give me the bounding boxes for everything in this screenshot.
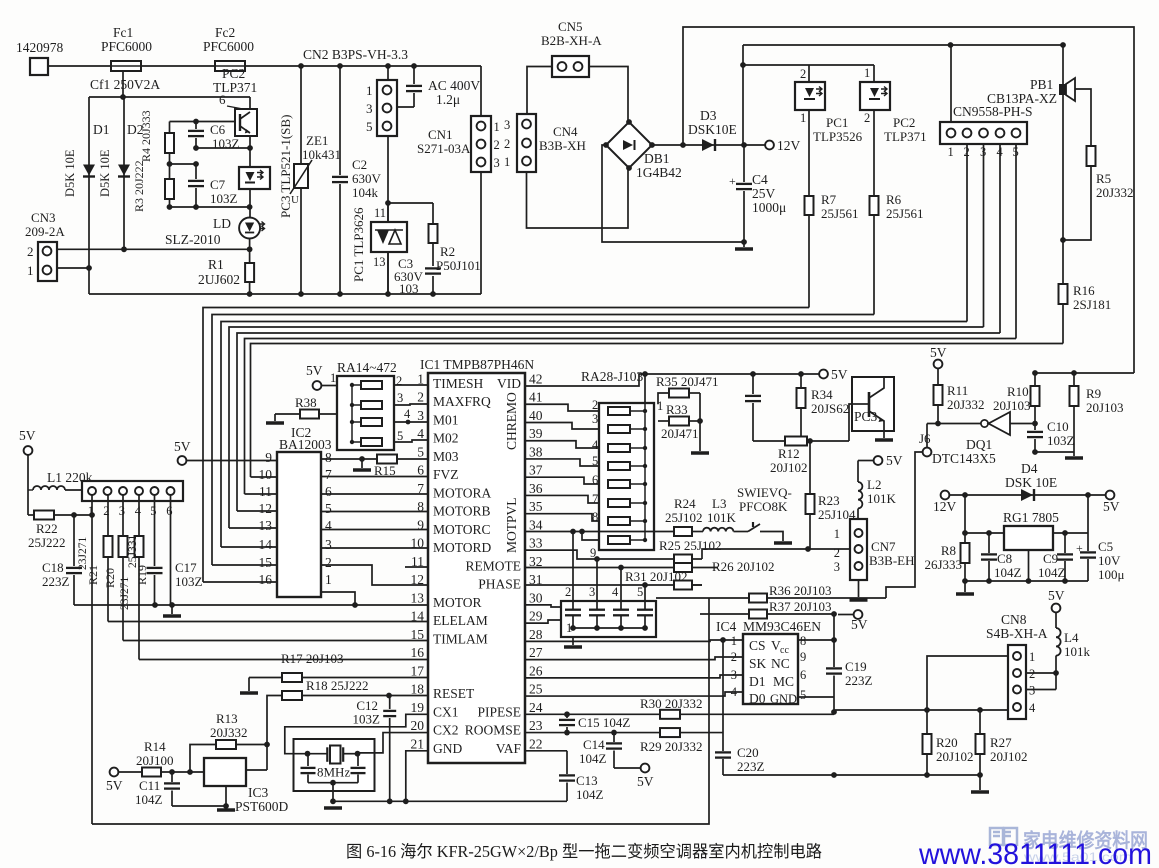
svg-text:C18: C18 xyxy=(42,560,64,575)
wire CN9558 pin1 up xyxy=(950,45,952,122)
wire display pin5 down xyxy=(154,495,156,566)
svg-text:23J271: 23J271 xyxy=(77,537,89,570)
svg-text:MOTORD: MOTORD xyxy=(433,540,492,555)
svg-text:3: 3 xyxy=(504,118,510,132)
terminal 5V R11 xyxy=(934,360,943,369)
svg-text:PFC6000: PFC6000 xyxy=(203,39,254,54)
wire transistor base xyxy=(170,121,236,123)
svg-text:R8: R8 xyxy=(941,543,956,558)
wire bundle line 1 xyxy=(203,308,809,583)
wire IC1 pin21 GND xyxy=(406,751,428,802)
svg-text:VID: VID xyxy=(497,376,521,391)
svg-text:R37 20J103: R37 20J103 xyxy=(769,599,831,614)
svg-text:18: 18 xyxy=(411,682,425,697)
svg-text:14: 14 xyxy=(411,609,425,624)
svg-text:24: 24 xyxy=(529,700,543,715)
svg-text:38: 38 xyxy=(529,444,543,459)
svg-text:20J332: 20J332 xyxy=(210,725,248,740)
resistor R20 23J271 xyxy=(119,536,128,557)
svg-text:15: 15 xyxy=(411,627,425,642)
wire IC2 pin3 to IC1 pin10 xyxy=(321,547,428,549)
svg-text:D5K 10E: D5K 10E xyxy=(98,149,112,197)
svg-text:1: 1 xyxy=(800,111,806,125)
svg-text:37: 37 xyxy=(529,463,543,478)
wire display pin3 to IC1 pin15 xyxy=(122,495,124,641)
svg-text:RESET: RESET xyxy=(433,686,475,701)
svg-text:MOTORB: MOTORB xyxy=(433,504,491,519)
terminal 5V regulator xyxy=(1106,491,1115,500)
svg-text:Cf1 250V2A: Cf1 250V2A xyxy=(90,77,160,92)
svg-text:2: 2 xyxy=(396,374,402,388)
wire IC1 pin24 PIPESE line xyxy=(525,713,660,715)
svg-text:1G4B42: 1G4B42 xyxy=(636,165,682,180)
svg-text:3: 3 xyxy=(589,585,595,599)
svg-text:B3B-EH: B3B-EH xyxy=(869,553,915,568)
svg-text:R33: R33 xyxy=(666,402,688,417)
svg-text:PIPESE: PIPESE xyxy=(477,704,521,719)
svg-text:1: 1 xyxy=(330,371,336,385)
wire CN4 bottom loop xyxy=(527,168,629,228)
wire crystal bottom xyxy=(308,782,358,784)
svg-text:223Z: 223Z xyxy=(42,574,70,589)
svg-text:5: 5 xyxy=(325,501,332,516)
wire R20/R27 bottom rail xyxy=(834,774,980,776)
connector CN7 B3B-EH xyxy=(850,519,867,580)
svg-text:103Z: 103Z xyxy=(353,712,381,727)
svg-text:14: 14 xyxy=(259,537,273,552)
wire top border xyxy=(683,27,1134,373)
svg-text:6: 6 xyxy=(592,473,598,487)
svg-text:RG1 7805: RG1 7805 xyxy=(1003,510,1059,525)
svg-text:1: 1 xyxy=(417,372,424,387)
wire sub rail xyxy=(89,96,250,98)
svg-text:20J332: 20J332 xyxy=(1096,185,1134,200)
svg-text:20JS62: 20JS62 xyxy=(811,401,849,416)
svg-text:D1: D1 xyxy=(93,122,110,137)
svg-text:R20: R20 xyxy=(103,568,117,588)
svg-text:4: 4 xyxy=(1029,701,1036,715)
svg-text:630V: 630V xyxy=(352,171,382,186)
svg-text:RA14~472: RA14~472 xyxy=(337,360,397,375)
svg-text:P50J101: P50J101 xyxy=(436,258,481,273)
wire IC4 GND pin5 xyxy=(798,696,834,698)
wire regulator input xyxy=(965,495,1004,533)
svg-text:SWIEVQ-: SWIEVQ- xyxy=(737,485,792,500)
svg-text:2: 2 xyxy=(417,390,424,405)
svg-text:3: 3 xyxy=(119,504,125,518)
svg-text:C2: C2 xyxy=(352,157,367,172)
svg-text:MOTPVL: MOTPVL xyxy=(504,497,519,553)
svg-text:2: 2 xyxy=(864,111,870,125)
wire IC1 pin27 to IC4 SK xyxy=(525,657,743,660)
svg-text:2: 2 xyxy=(504,137,510,151)
svg-text:101K: 101K xyxy=(707,510,737,525)
svg-text:R4 20J333: R4 20J333 xyxy=(139,110,153,162)
svg-text:PHASE: PHASE xyxy=(478,577,521,592)
svg-text:104Z: 104Z xyxy=(1038,565,1066,580)
connector CN4 B3B-XH xyxy=(517,114,536,172)
svg-text:C10: C10 xyxy=(1047,419,1069,434)
svg-text:13: 13 xyxy=(259,518,273,533)
svg-text:103Z: 103Z xyxy=(210,191,238,206)
wire CN8 pin3 to L4 xyxy=(1026,689,1056,691)
connector display header xyxy=(82,481,183,501)
svg-text:R12: R12 xyxy=(778,446,800,461)
svg-text:R17 20J103: R17 20J103 xyxy=(281,651,343,666)
svg-text:101K: 101K xyxy=(867,491,897,506)
svg-text:S4B-XH-A: S4B-XH-A xyxy=(986,626,1048,641)
svg-text:MAXFRQ: MAXFRQ xyxy=(433,394,491,409)
svg-text:图 6-16 海尔 KFR-25GW×2/Bp 型一拖二: 图 6-16 海尔 KFR-25GW×2/Bp 型一拖二变频空调器室内机控制电路 xyxy=(346,842,822,861)
svg-text:2SJ181: 2SJ181 xyxy=(1073,297,1111,312)
transistor PC3 xyxy=(852,377,894,431)
svg-text:B2B-XH-A: B2B-XH-A xyxy=(541,33,602,48)
ground at R15 xyxy=(361,459,363,468)
svg-text:CS: CS xyxy=(749,638,766,653)
svg-text:21: 21 xyxy=(411,736,425,751)
svg-text:104Z: 104Z xyxy=(994,565,1022,580)
wire R4 R3 middle link xyxy=(170,163,197,165)
svg-text:R10: R10 xyxy=(1007,384,1029,399)
wires IC1 pins 41-35 to RA28 xyxy=(525,404,599,411)
svg-text:DSK10E: DSK10E xyxy=(688,122,737,137)
svg-text:DQ1: DQ1 xyxy=(966,437,992,452)
wire CN8 pin1 long xyxy=(927,656,1008,710)
ground switch xyxy=(774,541,792,545)
svg-text:10: 10 xyxy=(259,467,273,482)
ground crystal xyxy=(324,806,342,810)
wire bundle line 4 xyxy=(229,327,984,528)
svg-text:Fc2: Fc2 xyxy=(215,25,235,40)
ground R27 rail xyxy=(979,775,981,790)
svg-text:5: 5 xyxy=(800,688,806,702)
wire cluster bottom link xyxy=(170,206,250,208)
svg-text:25J331: 25J331 xyxy=(127,535,139,568)
svg-text:PC2: PC2 xyxy=(893,115,915,130)
svg-text:R23: R23 xyxy=(818,493,840,508)
terminal 5V VID rail xyxy=(819,370,828,379)
ground DB1 rail xyxy=(743,242,745,247)
svg-text:C6: C6 xyxy=(210,122,226,137)
svg-text:ELELAM: ELELAM xyxy=(433,613,488,628)
svg-text:8: 8 xyxy=(325,450,332,465)
svg-text:1: 1 xyxy=(834,527,840,541)
svg-text:13: 13 xyxy=(411,590,425,605)
svg-text:R5: R5 xyxy=(1096,171,1111,186)
svg-text:CX1: CX1 xyxy=(433,704,459,719)
svg-text:5V: 5V xyxy=(831,367,848,382)
svg-text:R3 20J222: R3 20J222 xyxy=(132,160,146,212)
svg-text:5V: 5V xyxy=(637,774,654,789)
svg-text:5V: 5V xyxy=(1048,588,1065,603)
wire AC top rail xyxy=(48,65,481,67)
svg-text:C11: C11 xyxy=(139,778,160,793)
svg-text:3: 3 xyxy=(731,668,737,682)
svg-text:4: 4 xyxy=(612,585,619,599)
svg-text:1420978: 1420978 xyxy=(16,40,64,55)
svg-text:Fc1: Fc1 xyxy=(113,25,133,40)
wire regulator bottom rail xyxy=(965,580,1088,582)
wire regulator output xyxy=(1053,532,1088,534)
wire R25 to CN7 pin2 wire xyxy=(702,549,851,559)
svg-text:20J102: 20J102 xyxy=(770,460,808,475)
svg-text:3: 3 xyxy=(494,156,500,170)
svg-text:R9: R9 xyxy=(1086,386,1101,401)
svg-text:223Z: 223Z xyxy=(737,759,765,774)
svg-text:5V: 5V xyxy=(886,453,903,468)
svg-text:L4: L4 xyxy=(1064,630,1079,645)
wire C10 bottom xyxy=(1035,451,1074,453)
svg-text:R26 20J102: R26 20J102 xyxy=(712,559,774,574)
ground CN7 xyxy=(858,580,860,597)
svg-text:20J103: 20J103 xyxy=(993,398,1031,413)
wire IC1 pin19 CX1 xyxy=(285,714,428,753)
svg-text:25J561: 25J561 xyxy=(821,206,859,221)
svg-text:C7: C7 xyxy=(210,177,226,192)
svg-text:2: 2 xyxy=(1029,667,1035,681)
svg-text:R22: R22 xyxy=(36,521,58,536)
svg-text:11: 11 xyxy=(374,206,386,220)
resistor R19 25J331 xyxy=(135,536,144,557)
svg-text:VAF: VAF xyxy=(496,741,522,756)
svg-text:MC: MC xyxy=(773,674,794,689)
terminal 5V C14 xyxy=(614,767,641,769)
svg-text:9: 9 xyxy=(265,450,272,465)
svg-text:2: 2 xyxy=(731,650,737,664)
wire IC1 pin26 to IC4 D1 xyxy=(525,675,743,678)
ground MOTOR line xyxy=(171,605,173,614)
wire regulator gnd pin xyxy=(1028,550,1030,581)
svg-text:103Z: 103Z xyxy=(175,574,203,589)
svg-text:BA12003: BA12003 xyxy=(279,437,332,452)
svg-text:39: 39 xyxy=(529,426,543,441)
svg-text:27: 27 xyxy=(529,645,543,660)
svg-text:PB1: PB1 xyxy=(1030,77,1053,92)
svg-text:209-2A: 209-2A xyxy=(25,224,65,239)
wire IC1 pin33 R25 line xyxy=(525,550,702,559)
svg-text:PC1: PC1 xyxy=(826,115,848,130)
svg-text:5: 5 xyxy=(637,585,643,599)
svg-text:CN1: CN1 xyxy=(428,127,453,142)
svg-text:L3: L3 xyxy=(712,496,726,511)
IC IC3 PST600D xyxy=(204,758,246,786)
svg-text:C17: C17 xyxy=(175,560,197,575)
svg-text:30: 30 xyxy=(529,590,543,605)
svg-text:IC4: IC4 xyxy=(716,619,737,634)
wire IC4 Vcc to C19 col xyxy=(798,639,834,641)
bridge rectifier DB1 1G4B42 xyxy=(606,122,652,168)
svg-text:16: 16 xyxy=(411,645,425,660)
wire DB1 left to ground rail xyxy=(602,145,744,242)
terminal 5V L4 xyxy=(1052,604,1061,613)
svg-text:12: 12 xyxy=(411,572,425,587)
svg-text:R24: R24 xyxy=(674,496,696,511)
svg-text:R2: R2 xyxy=(440,244,455,259)
svg-text:1: 1 xyxy=(27,263,34,278)
wire CN8 pin4 long xyxy=(834,709,1008,711)
svg-text:20J332: 20J332 xyxy=(947,397,985,412)
svg-text:PC3: PC3 xyxy=(854,409,878,424)
svg-text:R25 25J102: R25 25J102 xyxy=(659,538,721,553)
svg-text:CN9558-PH-S: CN9558-PH-S xyxy=(953,104,1033,119)
wire IC1 pin32 R26 line xyxy=(525,567,718,569)
svg-text:20J100: 20J100 xyxy=(136,753,174,768)
svg-text:25J561: 25J561 xyxy=(886,206,924,221)
wire IC1 pin23 ROOMSE line xyxy=(525,732,660,734)
ground cap box xyxy=(572,637,574,645)
svg-text:C4: C4 xyxy=(752,172,768,187)
svg-text:D0: D0 xyxy=(749,691,766,706)
svg-text:R30 20J332: R30 20J332 xyxy=(640,696,702,711)
svg-text:R27: R27 xyxy=(990,735,1012,750)
ground IC3 xyxy=(217,808,235,812)
wire IC1 pin20 CX2 xyxy=(358,733,429,753)
svg-text:5V: 5V xyxy=(930,345,947,360)
svg-text:1: 1 xyxy=(494,120,500,134)
resistor R15 xyxy=(377,455,397,464)
svg-text:1: 1 xyxy=(948,145,954,159)
wire CN9558 pin4 down xyxy=(999,144,1001,333)
svg-text:R7: R7 xyxy=(821,192,837,207)
ground R9 xyxy=(1073,452,1075,456)
wire IC2 pin6 to IC1 pin7 xyxy=(321,493,428,495)
svg-text:C8: C8 xyxy=(997,551,1012,566)
svg-text:PC2: PC2 xyxy=(222,66,245,81)
svg-text:1: 1 xyxy=(88,504,94,518)
svg-text:R29 20J332: R29 20J332 xyxy=(640,739,702,754)
svg-text:R18 25J222: R18 25J222 xyxy=(306,678,368,693)
svg-text:2UJ602: 2UJ602 xyxy=(198,272,240,287)
svg-text:25J102: 25J102 xyxy=(665,510,703,525)
svg-text:REMOTE: REMOTE xyxy=(466,558,522,573)
wire CN3 pin1 to D1 column xyxy=(57,267,89,269)
svg-text:1: 1 xyxy=(366,83,373,98)
svg-text:MOTORC: MOTORC xyxy=(433,522,491,537)
svg-text:16: 16 xyxy=(259,572,273,587)
svg-text:7: 7 xyxy=(417,481,424,496)
svg-text:CN2 B3PS-VH-3.3: CN2 B3PS-VH-3.3 xyxy=(303,47,408,62)
terminal 5V IC3 xyxy=(110,768,119,777)
wire CN8 pin2 to L4 xyxy=(1026,672,1056,674)
svg-text:RA28-J103: RA28-J103 xyxy=(581,369,644,384)
svg-text:103: 103 xyxy=(399,281,419,296)
svg-text:1000μ: 1000μ xyxy=(752,200,786,215)
svg-text:25V: 25V xyxy=(752,186,776,201)
svg-text:10: 10 xyxy=(411,536,425,551)
svg-text:C5: C5 xyxy=(1098,539,1113,554)
svg-text:R6: R6 xyxy=(886,192,902,207)
connector CN2 header xyxy=(377,80,397,136)
svg-text:3: 3 xyxy=(325,537,332,552)
svg-text:11: 11 xyxy=(411,554,424,569)
svg-text:D4: D4 xyxy=(1021,461,1038,476)
svg-text:PC1 TLP3626: PC1 TLP3626 xyxy=(351,207,366,282)
svg-text:5V: 5V xyxy=(851,617,868,632)
svg-text:25J222: 25J222 xyxy=(28,535,66,550)
svg-text:TIMESH: TIMESH xyxy=(433,376,484,391)
wire bottom rail of AC section xyxy=(89,293,481,295)
svg-text:23: 23 xyxy=(529,718,543,733)
wire RA14 to IC1 pins 1-4 xyxy=(394,384,428,386)
wire CN9558 pin3 down xyxy=(983,144,985,327)
wire 12V-5V rail xyxy=(950,494,1106,496)
svg-text:TLP371: TLP371 xyxy=(884,129,927,144)
svg-text:TIMLAM: TIMLAM xyxy=(433,631,488,646)
capacitor crystal right xyxy=(357,754,359,766)
ground R8 xyxy=(964,581,966,592)
svg-text:4: 4 xyxy=(417,426,424,441)
svg-text:7: 7 xyxy=(325,467,332,482)
capacitor box remote xyxy=(561,601,656,637)
svg-text:1: 1 xyxy=(731,634,737,648)
svg-text:26: 26 xyxy=(529,663,543,678)
svg-text:12V: 12V xyxy=(777,138,801,153)
svg-text:M01: M01 xyxy=(433,412,459,427)
wire drop to sub rail xyxy=(122,71,124,97)
svg-text:5: 5 xyxy=(417,444,424,459)
wire triac gate to R2 xyxy=(388,202,433,204)
ground R33/R35 xyxy=(691,451,709,455)
resistor R26 20J102 xyxy=(674,563,692,572)
svg-text:2: 2 xyxy=(494,138,500,152)
wire IC1 pin28 to IC4 CS xyxy=(525,640,743,641)
svg-text:1: 1 xyxy=(325,572,332,587)
svg-text:LD: LD xyxy=(213,216,231,231)
wire bottom border xyxy=(92,598,709,824)
wire bundle line 2 xyxy=(212,315,874,566)
svg-text:AC 400V: AC 400V xyxy=(428,78,480,93)
svg-text:25: 25 xyxy=(529,682,543,697)
svg-text:D3: D3 xyxy=(700,108,717,123)
svg-text:PFCO8K: PFCO8K xyxy=(739,499,788,514)
svg-text:FVZ: FVZ xyxy=(433,467,459,482)
svg-text:S271-03A: S271-03A xyxy=(417,141,471,156)
capacitor crystal left xyxy=(307,754,309,766)
svg-text:R20: R20 xyxy=(936,735,958,750)
wire 12V branch rail xyxy=(743,44,1063,46)
svg-text:11: 11 xyxy=(259,484,272,499)
terminal 12V regulator xyxy=(941,491,950,500)
svg-text:CN8: CN8 xyxy=(1001,612,1027,627)
wire bundle line 7 xyxy=(251,344,1064,478)
svg-text:4: 4 xyxy=(592,438,599,452)
svg-text:41: 41 xyxy=(529,390,543,405)
svg-text:6: 6 xyxy=(325,484,332,499)
wire CN5 left to CN4 xyxy=(527,67,552,115)
svg-text:R38: R38 xyxy=(295,395,317,410)
svg-text:5V: 5V xyxy=(306,363,323,378)
svg-text:29: 29 xyxy=(529,609,543,624)
wire CN9558 pin5 down xyxy=(1015,144,1017,339)
svg-text:42: 42 xyxy=(529,372,543,387)
svg-text:R36 20J103: R36 20J103 xyxy=(769,583,831,598)
svg-text:17: 17 xyxy=(411,663,425,678)
wires cap box columns up xyxy=(572,532,574,602)
svg-text:9: 9 xyxy=(800,650,806,664)
svg-text:20J471: 20J471 xyxy=(661,426,699,441)
crystal 8MHz xyxy=(308,753,328,755)
wire CN9558 pin2 down xyxy=(966,144,968,322)
svg-text:3: 3 xyxy=(592,412,598,426)
svg-text:C14: C14 xyxy=(583,737,605,752)
svg-text:CN4: CN4 xyxy=(553,124,578,139)
wire IC2 pin1 to MOTOR line xyxy=(321,592,355,605)
svg-text:NC: NC xyxy=(771,656,790,671)
svg-text:www.3811111.com: www.3811111.com xyxy=(918,838,1152,868)
wire R10/R9 top rail xyxy=(1035,372,1134,374)
svg-text:20: 20 xyxy=(411,718,425,733)
crystal box xyxy=(294,739,375,791)
